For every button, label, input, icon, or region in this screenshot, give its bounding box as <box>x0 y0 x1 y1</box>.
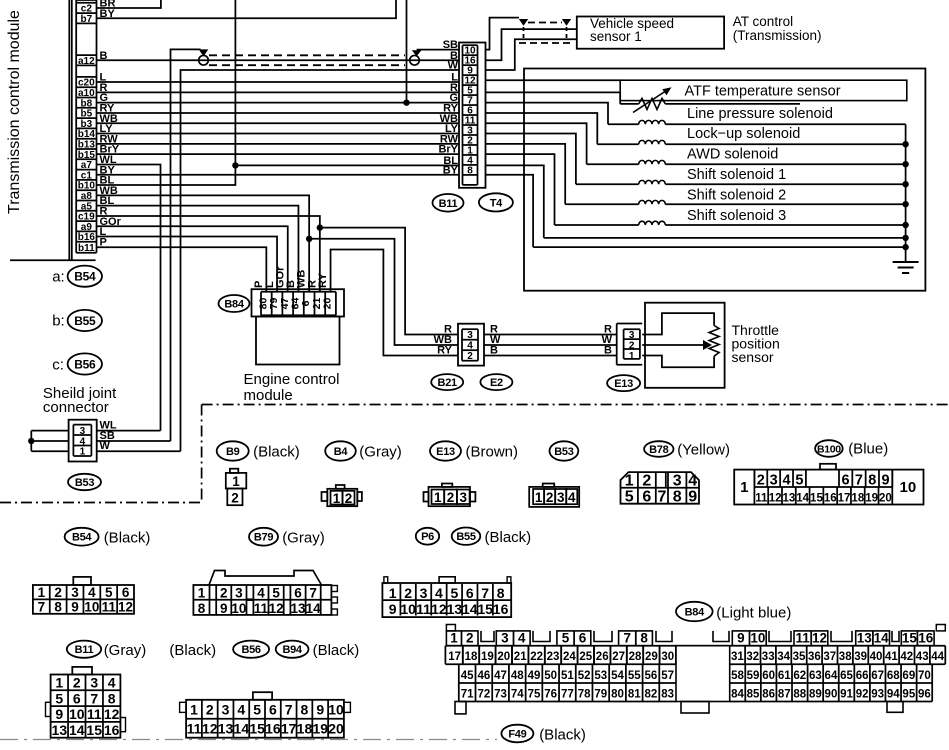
svg-text:Shift solenoid 3: Shift solenoid 3 <box>687 208 786 224</box>
svg-text:B94: B94 <box>282 644 302 656</box>
svg-text:c:: c: <box>52 357 64 374</box>
svg-text:5: 5 <box>105 585 113 600</box>
svg-text:7: 7 <box>90 690 98 706</box>
svg-text:66: 66 <box>856 670 869 682</box>
svg-text:13: 13 <box>290 601 306 616</box>
svg-text:1: 1 <box>232 474 240 489</box>
svg-text:2: 2 <box>447 490 455 505</box>
svg-text:(Light blue): (Light blue) <box>716 605 791 622</box>
svg-text:4: 4 <box>88 585 96 600</box>
svg-text:78: 78 <box>578 688 591 700</box>
svg-text:14: 14 <box>874 631 890 646</box>
svg-text:(Black): (Black) <box>169 642 216 659</box>
svg-text:14: 14 <box>462 601 478 617</box>
svg-text:9: 9 <box>71 599 79 614</box>
svg-text:6: 6 <box>294 586 302 601</box>
svg-text:52: 52 <box>578 670 591 682</box>
svg-text:1: 1 <box>450 631 458 646</box>
svg-text:29: 29 <box>645 651 658 663</box>
svg-text:B79: B79 <box>254 532 273 544</box>
svg-text:16: 16 <box>824 493 837 505</box>
svg-text:2: 2 <box>642 472 651 489</box>
svg-text:18: 18 <box>465 651 478 663</box>
svg-text:6: 6 <box>579 631 587 646</box>
svg-text:2: 2 <box>467 351 473 362</box>
svg-text:13: 13 <box>447 601 463 617</box>
svg-text:96: 96 <box>918 688 931 700</box>
svg-text:(Black): (Black) <box>104 530 151 547</box>
svg-text:83: 83 <box>661 688 674 700</box>
svg-text:43: 43 <box>916 651 929 663</box>
svg-text:B21: B21 <box>438 377 457 389</box>
svg-text:7: 7 <box>855 473 863 489</box>
svg-text:3: 3 <box>557 490 565 505</box>
svg-text:B78: B78 <box>649 444 668 456</box>
svg-text:RY: RY <box>437 345 453 357</box>
svg-text:B11: B11 <box>75 644 94 656</box>
svg-text:module: module <box>244 387 293 404</box>
svg-text:48: 48 <box>511 670 524 682</box>
svg-text:2: 2 <box>546 490 554 505</box>
svg-text:60: 60 <box>762 670 775 682</box>
svg-text:B100: B100 <box>817 443 841 455</box>
svg-text:2: 2 <box>206 702 214 718</box>
svg-text:63: 63 <box>809 670 822 682</box>
svg-text:67: 67 <box>871 670 884 682</box>
svg-text:E13: E13 <box>436 446 455 458</box>
svg-text:15: 15 <box>810 493 823 505</box>
svg-text:1: 1 <box>190 702 198 718</box>
svg-text:7: 7 <box>657 488 666 505</box>
svg-text:15: 15 <box>902 631 918 646</box>
svg-text:10: 10 <box>328 702 344 718</box>
svg-text:4: 4 <box>467 341 473 352</box>
svg-text:39: 39 <box>854 651 867 663</box>
svg-text:5: 5 <box>272 586 280 601</box>
svg-text:3: 3 <box>235 586 243 601</box>
svg-text:14: 14 <box>234 721 250 737</box>
svg-text:1: 1 <box>740 479 748 496</box>
svg-text:44: 44 <box>931 651 944 663</box>
svg-text:53: 53 <box>594 670 607 682</box>
svg-text:82: 82 <box>645 688 658 700</box>
svg-text:91: 91 <box>840 688 853 700</box>
svg-text:8: 8 <box>198 601 206 616</box>
svg-text:84: 84 <box>731 688 744 700</box>
svg-text:B9: B9 <box>226 446 240 458</box>
svg-text:(Yellow): (Yellow) <box>677 442 730 459</box>
svg-text:12: 12 <box>104 706 120 722</box>
svg-text:23: 23 <box>547 651 560 663</box>
svg-text:3: 3 <box>629 330 635 341</box>
svg-text:13: 13 <box>52 722 68 738</box>
svg-text:20: 20 <box>879 493 892 505</box>
svg-text:45: 45 <box>461 670 474 682</box>
svg-text:40: 40 <box>870 651 883 663</box>
svg-text:65: 65 <box>840 670 853 682</box>
svg-text:B11: B11 <box>439 198 458 210</box>
svg-text:16: 16 <box>493 601 509 617</box>
svg-text:7: 7 <box>623 631 631 646</box>
svg-text:10: 10 <box>231 601 246 616</box>
svg-text:3: 3 <box>90 675 98 691</box>
svg-text:2: 2 <box>73 675 81 691</box>
svg-text:8: 8 <box>301 702 309 718</box>
svg-text:8: 8 <box>673 488 682 505</box>
svg-text:70: 70 <box>918 670 931 682</box>
svg-text:Shift solenoid 1: Shift solenoid 1 <box>687 167 786 183</box>
svg-text:54: 54 <box>611 670 624 682</box>
svg-text:15: 15 <box>477 601 493 617</box>
svg-text:74: 74 <box>511 688 524 700</box>
svg-text:sensor: sensor <box>732 349 774 365</box>
svg-text:(Black): (Black) <box>313 642 360 659</box>
svg-text:7: 7 <box>309 586 317 601</box>
svg-text:59: 59 <box>747 670 760 682</box>
svg-text:12: 12 <box>118 599 133 614</box>
svg-text:b16: b16 <box>78 232 96 243</box>
svg-text:9: 9 <box>737 631 745 646</box>
svg-text:56: 56 <box>645 670 658 682</box>
svg-text:5: 5 <box>253 702 261 718</box>
svg-text:64: 64 <box>825 670 838 682</box>
svg-text:B: B <box>604 345 612 357</box>
svg-text:3: 3 <box>71 585 79 600</box>
svg-text:Lock−up solenoid: Lock−up solenoid <box>687 126 800 142</box>
svg-text:F49: F49 <box>508 728 526 740</box>
svg-text:1: 1 <box>55 675 63 691</box>
svg-text:12: 12 <box>769 493 782 505</box>
svg-text:32: 32 <box>746 651 759 663</box>
svg-text:17: 17 <box>838 493 851 505</box>
svg-text:(Blue): (Blue) <box>848 441 888 458</box>
svg-text:18: 18 <box>851 493 864 505</box>
svg-text:3: 3 <box>770 473 778 489</box>
svg-text:10: 10 <box>400 601 416 617</box>
svg-text:28: 28 <box>629 651 642 663</box>
svg-text:25: 25 <box>579 651 592 663</box>
svg-text:49: 49 <box>528 670 541 682</box>
svg-text:sensor 1: sensor 1 <box>590 29 642 44</box>
svg-text:1: 1 <box>389 585 397 601</box>
svg-text:Transmission control module: Transmission control module <box>6 10 23 214</box>
svg-text:11: 11 <box>187 721 202 737</box>
svg-text:B54: B54 <box>74 270 96 284</box>
svg-text:(Gray): (Gray) <box>104 642 147 659</box>
svg-text:AWD solenoid: AWD solenoid <box>687 147 778 163</box>
svg-text:77: 77 <box>561 688 574 700</box>
svg-text:10: 10 <box>900 479 917 496</box>
svg-text:6: 6 <box>642 488 651 505</box>
svg-text:8: 8 <box>54 599 62 614</box>
svg-text:13: 13 <box>218 721 234 737</box>
svg-text:11: 11 <box>416 601 431 617</box>
svg-text:(Black): (Black) <box>485 529 532 546</box>
svg-text:72: 72 <box>477 688 490 700</box>
svg-text:9: 9 <box>220 601 228 616</box>
svg-text:18: 18 <box>297 721 313 737</box>
svg-text:34: 34 <box>777 651 790 663</box>
svg-text:73: 73 <box>494 688 507 700</box>
svg-text:3: 3 <box>501 631 509 646</box>
svg-text:14: 14 <box>69 722 85 738</box>
svg-text:7: 7 <box>38 599 46 614</box>
svg-text:2: 2 <box>466 631 474 646</box>
svg-text:9: 9 <box>882 473 890 489</box>
svg-text:1: 1 <box>80 447 86 458</box>
svg-text:1: 1 <box>629 351 635 362</box>
svg-text:Shift solenoid 2: Shift solenoid 2 <box>687 188 786 204</box>
svg-text:(Black): (Black) <box>253 444 300 461</box>
svg-text:4: 4 <box>108 675 116 691</box>
svg-text:1: 1 <box>333 491 341 506</box>
svg-text:B55: B55 <box>456 531 475 543</box>
svg-text:20: 20 <box>497 651 510 663</box>
svg-text:36: 36 <box>808 651 821 663</box>
svg-text:b11: b11 <box>78 243 95 254</box>
svg-text:2: 2 <box>345 491 353 506</box>
svg-text:6: 6 <box>73 690 81 706</box>
svg-text:B55: B55 <box>74 314 96 328</box>
svg-text:P6: P6 <box>421 531 434 543</box>
svg-text:16: 16 <box>918 631 934 646</box>
svg-text:6: 6 <box>122 585 130 600</box>
svg-text:94: 94 <box>887 688 900 700</box>
svg-text:86: 86 <box>762 688 775 700</box>
svg-text:(Brown): (Brown) <box>466 444 519 461</box>
svg-text:ATF temperature sensor: ATF temperature sensor <box>685 84 841 100</box>
svg-text:89: 89 <box>809 688 822 700</box>
svg-text:b7: b7 <box>81 14 93 25</box>
svg-text:26: 26 <box>596 651 609 663</box>
svg-text:b:: b: <box>52 313 65 330</box>
svg-text:6: 6 <box>842 473 850 489</box>
svg-text:3: 3 <box>222 702 230 718</box>
svg-text:5: 5 <box>55 690 63 706</box>
svg-text:85: 85 <box>747 688 760 700</box>
svg-text:11: 11 <box>254 601 269 616</box>
svg-text:12: 12 <box>269 601 284 616</box>
svg-text:33: 33 <box>762 651 775 663</box>
svg-text:B56: B56 <box>74 357 96 371</box>
svg-text:(Gray): (Gray) <box>359 444 402 461</box>
svg-text:9: 9 <box>389 601 397 617</box>
svg-text:5: 5 <box>795 473 803 489</box>
svg-text:7: 7 <box>481 585 489 601</box>
svg-text:31: 31 <box>731 651 744 663</box>
svg-text:11: 11 <box>87 706 102 722</box>
svg-text:4: 4 <box>568 490 576 505</box>
svg-text:58: 58 <box>731 670 744 682</box>
svg-text:30: 30 <box>661 651 674 663</box>
svg-text:4: 4 <box>435 585 443 601</box>
svg-text:37: 37 <box>823 651 836 663</box>
svg-text:2: 2 <box>757 473 765 489</box>
svg-text:1: 1 <box>535 490 543 505</box>
svg-text:11: 11 <box>755 493 768 505</box>
svg-text:93: 93 <box>871 688 884 700</box>
svg-text:AT control: AT control <box>733 14 793 29</box>
svg-text:61: 61 <box>778 670 791 682</box>
svg-text:Line pressure solenoid: Line pressure solenoid <box>687 106 833 122</box>
svg-text:6: 6 <box>269 702 277 718</box>
svg-text:17: 17 <box>281 721 297 737</box>
svg-text:5: 5 <box>625 488 634 505</box>
svg-text:3: 3 <box>459 490 467 505</box>
svg-text:81: 81 <box>628 688 641 700</box>
svg-text:3: 3 <box>673 472 682 489</box>
svg-text:8: 8 <box>497 585 505 601</box>
svg-text:21: 21 <box>514 651 527 663</box>
svg-text:RY: RY <box>317 272 329 288</box>
svg-text:47: 47 <box>494 670 507 682</box>
svg-text:4: 4 <box>237 702 245 718</box>
svg-text:B84: B84 <box>224 298 244 310</box>
svg-text:88: 88 <box>793 688 806 700</box>
svg-text:20: 20 <box>328 721 344 737</box>
svg-text:14: 14 <box>796 493 809 505</box>
svg-text:9: 9 <box>55 706 63 722</box>
svg-text:B53: B53 <box>554 446 573 458</box>
svg-text:2: 2 <box>404 585 412 601</box>
svg-text:41: 41 <box>885 651 898 663</box>
svg-text:42: 42 <box>900 651 913 663</box>
svg-text:57: 57 <box>661 670 674 682</box>
svg-text:E2: E2 <box>490 377 503 389</box>
svg-text:11: 11 <box>102 599 117 614</box>
svg-text:1: 1 <box>625 472 634 489</box>
svg-text:68: 68 <box>887 670 900 682</box>
svg-text:4: 4 <box>783 473 791 489</box>
svg-text:16: 16 <box>265 721 281 737</box>
svg-text:5: 5 <box>450 585 458 601</box>
svg-text:8: 8 <box>868 473 876 489</box>
svg-text:17: 17 <box>448 651 461 663</box>
svg-text:7: 7 <box>285 702 293 718</box>
svg-text:80: 80 <box>611 688 624 700</box>
svg-text:50: 50 <box>544 670 557 682</box>
svg-text:13: 13 <box>857 631 873 646</box>
svg-text:14: 14 <box>306 601 322 616</box>
svg-text:E13: E13 <box>614 378 633 390</box>
svg-text:24: 24 <box>563 651 576 663</box>
svg-text:69: 69 <box>902 670 915 682</box>
svg-text:(Gray): (Gray) <box>282 530 325 547</box>
svg-text:T4: T4 <box>490 197 503 209</box>
svg-text:19: 19 <box>865 493 878 505</box>
svg-text:13: 13 <box>782 493 795 505</box>
svg-text:90: 90 <box>825 688 838 700</box>
svg-text:75: 75 <box>528 688 541 700</box>
svg-text:38: 38 <box>839 651 852 663</box>
svg-text:22: 22 <box>530 651 543 663</box>
svg-text:(Black): (Black) <box>539 727 586 744</box>
svg-text:4: 4 <box>518 631 526 646</box>
svg-text:connector: connector <box>43 399 109 416</box>
svg-text:1: 1 <box>38 585 46 600</box>
svg-text:B4: B4 <box>334 446 349 458</box>
svg-text:4: 4 <box>688 472 697 489</box>
svg-text:8: 8 <box>108 690 116 706</box>
svg-text:19: 19 <box>312 721 328 737</box>
svg-text:B54: B54 <box>72 532 92 544</box>
svg-text:2: 2 <box>629 341 635 352</box>
svg-text:51: 51 <box>561 670 574 682</box>
svg-text:71: 71 <box>461 688 474 700</box>
svg-text:Engine control: Engine control <box>244 371 340 388</box>
svg-text:9: 9 <box>316 702 324 718</box>
svg-text:2: 2 <box>220 586 228 601</box>
svg-text:9: 9 <box>688 488 697 505</box>
svg-text:79: 79 <box>594 688 607 700</box>
svg-text:55: 55 <box>628 670 641 682</box>
svg-text:B84: B84 <box>685 606 705 618</box>
svg-text:8: 8 <box>467 165 473 176</box>
svg-text:20: 20 <box>322 298 334 310</box>
svg-text:3: 3 <box>420 585 428 601</box>
svg-text:(Transmission): (Transmission) <box>733 28 822 43</box>
svg-text:95: 95 <box>902 688 915 700</box>
svg-text:6: 6 <box>466 585 474 601</box>
svg-text:46: 46 <box>477 670 490 682</box>
svg-text:76: 76 <box>544 688 557 700</box>
svg-text:15: 15 <box>86 722 102 738</box>
svg-text:10: 10 <box>84 599 99 614</box>
svg-text:11: 11 <box>795 631 810 646</box>
svg-text:B56: B56 <box>241 644 260 656</box>
svg-text:10: 10 <box>750 631 765 646</box>
svg-text:12: 12 <box>812 631 827 646</box>
svg-text:27: 27 <box>612 651 625 663</box>
svg-text:35: 35 <box>793 651 806 663</box>
svg-text:2: 2 <box>231 491 239 506</box>
svg-text:a12: a12 <box>78 56 95 67</box>
svg-text:a:: a: <box>52 269 65 286</box>
svg-text:8: 8 <box>640 631 648 646</box>
svg-text:19: 19 <box>481 651 494 663</box>
svg-text:2: 2 <box>54 585 62 600</box>
svg-text:4: 4 <box>257 586 265 601</box>
svg-text:3: 3 <box>80 426 86 437</box>
svg-text:62: 62 <box>793 670 806 682</box>
svg-text:3: 3 <box>467 330 473 341</box>
svg-text:5: 5 <box>562 631 570 646</box>
svg-text:10: 10 <box>69 706 85 722</box>
svg-text:12: 12 <box>431 601 447 617</box>
svg-text:1: 1 <box>434 490 442 505</box>
svg-text:12: 12 <box>202 721 218 737</box>
svg-text:16: 16 <box>104 722 120 738</box>
svg-text:1: 1 <box>198 586 206 601</box>
svg-text:15: 15 <box>249 721 265 737</box>
svg-text:87: 87 <box>778 688 791 700</box>
svg-text:92: 92 <box>856 688 869 700</box>
svg-text:B53: B53 <box>75 477 94 489</box>
